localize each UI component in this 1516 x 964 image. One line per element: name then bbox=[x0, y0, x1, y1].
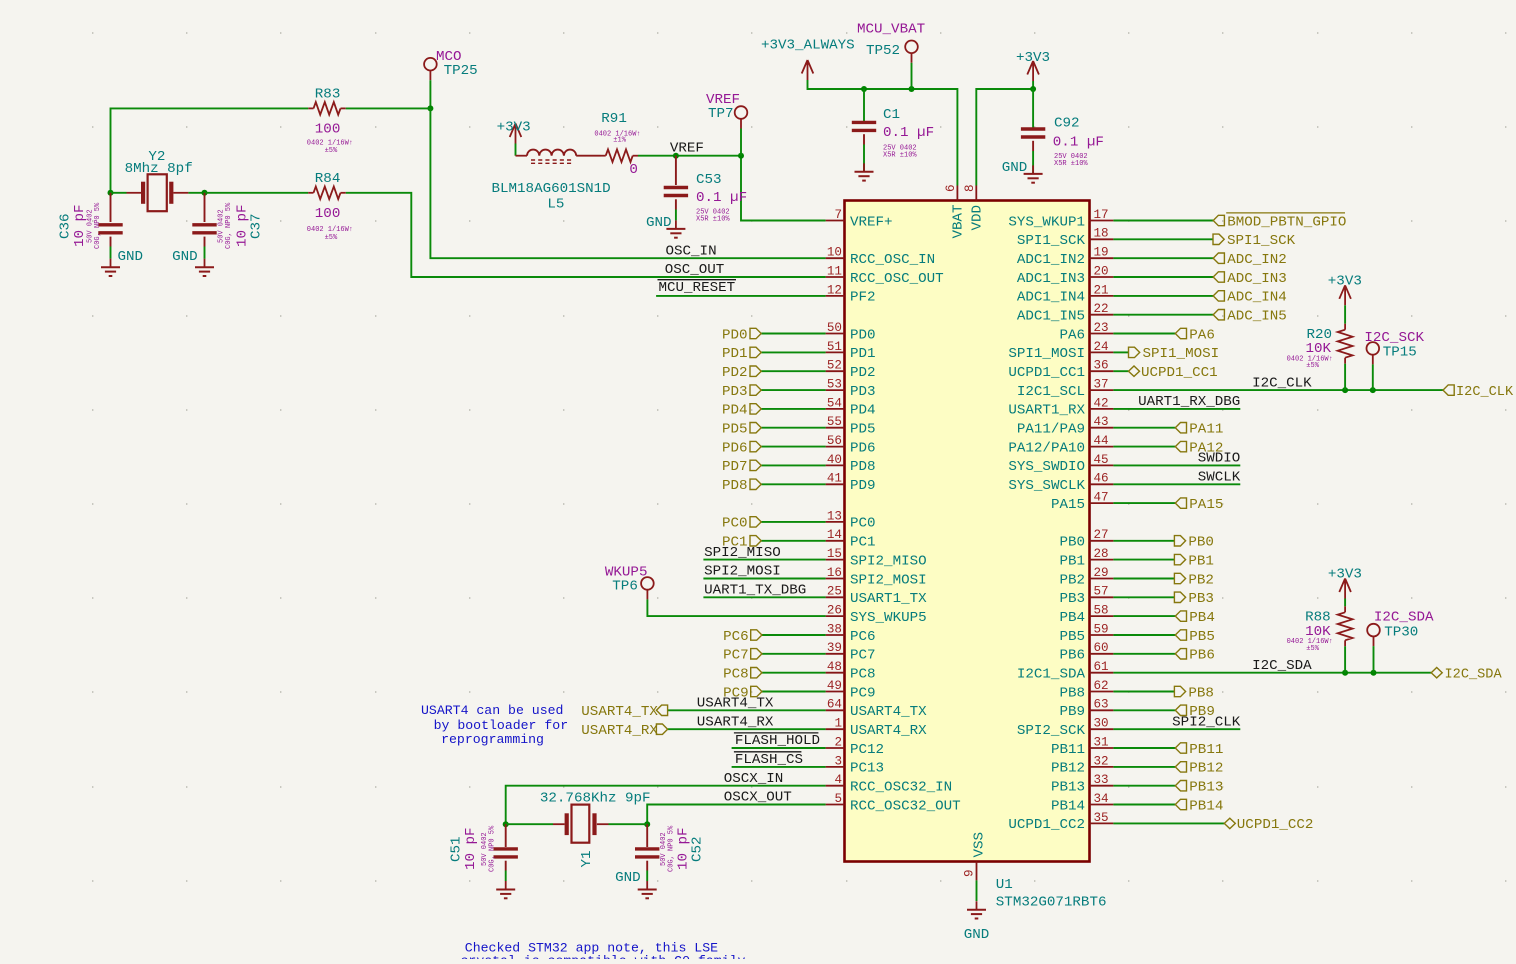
wire PB13 bbox=[1113, 785, 1175, 787]
svg-text:PD5: PD5 bbox=[850, 422, 876, 438]
svg-text:PC13: PC13 bbox=[850, 761, 884, 777]
svg-text:STM32G071RBT6: STM32G071RBT6 bbox=[996, 894, 1107, 910]
svg-text:C53: C53 bbox=[696, 172, 722, 188]
svg-text:I2C1_SCL: I2C1_SCL bbox=[1017, 384, 1085, 400]
svg-text:ADC1_IN4: ADC1_IN4 bbox=[1017, 290, 1085, 306]
pin 35 UCPD1_CC2 (U1 right) bbox=[1008, 811, 1113, 833]
pin 28 PB1 (U1 right) bbox=[1059, 547, 1113, 569]
svg-text:SPI1_SCK: SPI1_SCK bbox=[1017, 233, 1086, 249]
testpoint TP30 circle bbox=[1367, 624, 1380, 637]
svg-text:PB6: PB6 bbox=[1189, 648, 1215, 664]
wire ADC_IN3 bbox=[1113, 276, 1213, 278]
svg-text:36: 36 bbox=[1094, 359, 1109, 373]
svg-text:VDD: VDD bbox=[970, 205, 986, 231]
svg-text:VBAT: VBAT bbox=[951, 204, 967, 238]
svg-text:SPI2_CLK: SPI2_CLK bbox=[1172, 714, 1241, 730]
hierarchical label UCPD1_CC2 bbox=[1224, 817, 1313, 833]
svg-text:57: 57 bbox=[1094, 585, 1109, 599]
svg-text:0: 0 bbox=[629, 162, 638, 178]
svg-text:59: 59 bbox=[1094, 622, 1109, 636]
svg-text:R91: R91 bbox=[601, 111, 627, 127]
wire C51 to ground bbox=[505, 861, 507, 871]
svg-text:ADC_IN5: ADC_IN5 bbox=[1227, 309, 1287, 325]
resistor R91 bbox=[606, 149, 633, 162]
pin 61 I2C1_SDA (U1 right) bbox=[1017, 660, 1114, 682]
pin 55 PD5 (U1 left) bbox=[826, 415, 876, 437]
svg-text:BLM18AG601SN1D: BLM18AG601SN1D bbox=[492, 181, 611, 197]
junction Y1 pin1 / C51 bbox=[503, 821, 509, 827]
note USART4 bootloader (blue text) bbox=[421, 703, 568, 747]
power flag +3V3 arrow (R20) bbox=[1339, 285, 1351, 305]
svg-text:54: 54 bbox=[827, 396, 842, 410]
svg-text:PF2: PF2 bbox=[850, 290, 876, 306]
svg-text:PB12: PB12 bbox=[1189, 761, 1223, 777]
capacitor C51 bbox=[494, 847, 518, 850]
wire SPI1_MOSI bbox=[1113, 351, 1128, 353]
svg-text:SWCLK: SWCLK bbox=[1198, 470, 1241, 486]
svg-text:27: 27 bbox=[1094, 528, 1109, 542]
inductor/ferrite bead L5 bbox=[516, 150, 601, 164]
svg-text:crystal is compatible with G0: crystal is compatible with G0 family bbox=[461, 954, 746, 959]
svg-text:PB13: PB13 bbox=[1189, 780, 1223, 796]
svg-text:PD3: PD3 bbox=[850, 384, 876, 400]
wire R20 to I2C_CLK bbox=[1344, 364, 1346, 390]
svg-text:±1%: ±1% bbox=[613, 137, 626, 145]
svg-text:64: 64 bbox=[827, 698, 842, 712]
wire PD3 to pin bbox=[761, 389, 825, 391]
svg-text:100: 100 bbox=[315, 122, 341, 138]
svg-text:55: 55 bbox=[827, 415, 842, 429]
power flag +3V3 arrow (L5) bbox=[510, 124, 522, 144]
resistor R84 bbox=[314, 187, 341, 200]
svg-text:17: 17 bbox=[1094, 208, 1109, 222]
pin 58 PB4 (U1 right) bbox=[1059, 604, 1113, 626]
svg-text:46: 46 bbox=[1094, 472, 1109, 486]
svg-text:ADC_IN4: ADC_IN4 bbox=[1227, 290, 1287, 306]
svg-text:PA15: PA15 bbox=[1051, 497, 1085, 513]
resistor R20 bbox=[1338, 330, 1353, 358]
pin 49 PC9 (U1 left) bbox=[826, 679, 876, 701]
svg-text:+3V3: +3V3 bbox=[1328, 567, 1362, 583]
wire crystal left bbox=[111, 192, 127, 194]
pin 63 PB9 (U1 right) bbox=[1059, 698, 1113, 720]
pin 43 PA11/PA9 (U1 right) bbox=[1017, 415, 1114, 437]
svg-text:7: 7 bbox=[834, 208, 842, 222]
junction R88/I2C_SDA bbox=[1342, 670, 1348, 676]
svg-text:PB8: PB8 bbox=[1188, 685, 1214, 701]
svg-text:GND: GND bbox=[118, 249, 144, 265]
svg-text:SPI2_MISO: SPI2_MISO bbox=[704, 545, 781, 561]
wire +3V3_ALWAYS rail to VBAT bbox=[808, 80, 958, 186]
svg-text:PD4: PD4 bbox=[850, 403, 876, 419]
capacitor C92 bbox=[1021, 127, 1045, 130]
crystal Y2 bbox=[127, 174, 189, 211]
wire SWDIO bbox=[1113, 464, 1240, 466]
svg-text:PD5: PD5 bbox=[722, 422, 748, 438]
wire SPI2_MISO bbox=[703, 559, 825, 561]
pin 31 PB11 (U1 right) bbox=[1051, 735, 1113, 757]
pin 17 SYS_WKUP1 (U1 right) bbox=[1008, 208, 1113, 230]
junction C53/VREF bbox=[673, 153, 679, 159]
wire PB3 bbox=[1113, 596, 1174, 598]
svg-text:PC12: PC12 bbox=[850, 742, 884, 758]
svg-text:+3V3: +3V3 bbox=[1328, 273, 1362, 289]
svg-text:TP25: TP25 bbox=[444, 63, 478, 79]
hierarchical label PB14 bbox=[1175, 798, 1223, 814]
svg-text:UCPD1_CC1: UCPD1_CC1 bbox=[1008, 365, 1085, 381]
svg-text:22: 22 bbox=[1094, 302, 1109, 316]
wire PC6 to pin bbox=[762, 634, 826, 636]
svg-text:VREF: VREF bbox=[670, 141, 704, 157]
svg-text:±5%: ±5% bbox=[325, 234, 338, 242]
junction TP7/VREF bbox=[738, 153, 744, 159]
pin 46 SYS_SWCLK (U1 right) bbox=[1008, 472, 1113, 494]
hierarchical label USART4_RX bbox=[581, 723, 667, 739]
svg-text:PB0: PB0 bbox=[1188, 535, 1214, 551]
svg-text:21: 21 bbox=[1094, 283, 1109, 297]
svg-text:I2C_SCK: I2C_SCK bbox=[1364, 330, 1424, 346]
svg-text:PB2: PB2 bbox=[1188, 572, 1214, 588]
svg-text:MCU_RESET: MCU_RESET bbox=[659, 280, 736, 296]
svg-text:L5: L5 bbox=[547, 197, 564, 213]
svg-text:8Mhz 8pf: 8Mhz 8pf bbox=[125, 161, 193, 177]
capacitor C52 bbox=[635, 847, 659, 850]
pin 12 PF2 (U1 left) bbox=[826, 283, 876, 305]
svg-text:PB4: PB4 bbox=[1189, 610, 1215, 626]
hierarchical label SPI1_MOSI bbox=[1129, 346, 1220, 362]
svg-text:SPI1_MOSI: SPI1_MOSI bbox=[1143, 346, 1220, 362]
svg-text:MCU_VBAT: MCU_VBAT bbox=[857, 22, 925, 38]
wire Y1 left bbox=[506, 823, 553, 825]
svg-text:45: 45 bbox=[1094, 453, 1109, 467]
svg-text:C92: C92 bbox=[1054, 115, 1080, 131]
svg-text:OSCX_OUT: OSCX_OUT bbox=[724, 790, 792, 806]
svg-text:SWDIO: SWDIO bbox=[1198, 451, 1241, 467]
wire Y2 pin2 to C37 bbox=[204, 193, 206, 222]
wire crystal right to R84 bbox=[188, 192, 204, 194]
svg-text:40: 40 bbox=[827, 453, 842, 467]
ground (C53) bbox=[666, 220, 685, 237]
pin 34 PB14 (U1 right) bbox=[1051, 792, 1113, 814]
svg-text:1: 1 bbox=[834, 717, 842, 731]
svg-text:SPI1_MOSI: SPI1_MOSI bbox=[1008, 346, 1085, 362]
svg-text:23: 23 bbox=[1094, 321, 1109, 335]
pin 19 ADC1_IN2 (U1 right) bbox=[1017, 246, 1114, 268]
hierarchical label PC9 bbox=[723, 685, 762, 701]
svg-text:UCPD1_CC1: UCPD1_CC1 bbox=[1141, 365, 1218, 381]
wire OSCX_IN to crystal Y1 bbox=[506, 786, 826, 825]
wire TP25 down to R83 output bbox=[429, 80, 431, 108]
svg-text:Y1: Y1 bbox=[579, 850, 595, 867]
svg-text:I2C_SDA: I2C_SDA bbox=[1445, 668, 1503, 683]
svg-text:USART4_TX: USART4_TX bbox=[581, 704, 658, 720]
svg-text:C1: C1 bbox=[883, 107, 900, 123]
svg-text:GND: GND bbox=[172, 249, 198, 265]
svg-text:16: 16 bbox=[827, 566, 842, 580]
svg-text:GND: GND bbox=[646, 215, 672, 231]
testpoint TP7 circle bbox=[735, 106, 748, 119]
wire PA12 bbox=[1113, 446, 1175, 448]
svg-text:VSS: VSS bbox=[971, 832, 987, 858]
svg-text:R84: R84 bbox=[315, 171, 341, 187]
svg-text:58: 58 bbox=[1094, 604, 1109, 618]
svg-text:PC7: PC7 bbox=[850, 648, 876, 664]
svg-text:+3V3: +3V3 bbox=[1016, 50, 1050, 66]
svg-text:RCC_OSC32_IN: RCC_OSC32_IN bbox=[850, 780, 952, 796]
pin 11 RCC_OSC_OUT (U1 left) bbox=[826, 264, 944, 286]
svg-text:VREF+: VREF+ bbox=[850, 214, 893, 230]
pin 50 PD0 (U1 left) bbox=[826, 321, 876, 343]
svg-text:PB11: PB11 bbox=[1189, 742, 1223, 758]
wire C1 to ground bbox=[863, 134, 865, 144]
hierarchical label PB4 bbox=[1175, 610, 1215, 626]
wire SPI2_MOSI bbox=[703, 578, 825, 580]
svg-text:+3V3: +3V3 bbox=[497, 119, 531, 135]
svg-text:UART1_TX_DBG: UART1_TX_DBG bbox=[704, 583, 806, 599]
power flag +3V3 arrow (R88) bbox=[1339, 579, 1351, 599]
junction TP30/I2C_SDA bbox=[1371, 670, 1377, 676]
svg-text:63: 63 bbox=[1094, 698, 1109, 712]
wire ADC_IN4 bbox=[1113, 295, 1213, 297]
hierarchical label I2C_CLK bbox=[1443, 385, 1514, 400]
ground (C92) bbox=[1024, 165, 1043, 182]
svg-text:26: 26 bbox=[827, 604, 842, 618]
hierarchical label PA12 bbox=[1175, 440, 1223, 456]
svg-text:53: 53 bbox=[827, 378, 842, 392]
svg-text:SYS_WKUP1: SYS_WKUP1 bbox=[1008, 214, 1085, 230]
svg-text:UCPD1_CC2: UCPD1_CC2 bbox=[1237, 817, 1314, 833]
junction Y2 pin2 / C37 bbox=[202, 190, 208, 196]
svg-text:PD2: PD2 bbox=[722, 365, 748, 381]
pin 60 PB6 (U1 right) bbox=[1059, 641, 1113, 663]
svg-text:UART1_RX_DBG: UART1_RX_DBG bbox=[1138, 394, 1240, 410]
wire PB1 bbox=[1113, 559, 1174, 561]
svg-text:PC0: PC0 bbox=[850, 516, 876, 532]
pin 56 PD6 (U1 left) bbox=[826, 434, 876, 456]
pin 37 I2C1_SCL (U1 right) bbox=[1017, 378, 1114, 400]
pin 52 PD2 (U1 left) bbox=[826, 359, 876, 381]
svg-text:X5R ±10%: X5R ±10% bbox=[696, 216, 730, 224]
svg-text:PC9: PC9 bbox=[850, 685, 876, 701]
hierarchical label PA11 bbox=[1175, 422, 1223, 438]
junction MCO/R83 bbox=[427, 105, 433, 111]
hierarchical label ADC_IN5 bbox=[1213, 309, 1287, 325]
svg-text:0.1 µF: 0.1 µF bbox=[883, 125, 934, 141]
svg-text:I2C_CLK: I2C_CLK bbox=[1252, 375, 1312, 391]
wire MCU_RESET to PF2 bbox=[656, 295, 826, 297]
svg-text:PC8: PC8 bbox=[723, 667, 749, 683]
svg-text:8: 8 bbox=[963, 184, 977, 192]
svg-text:ADC_IN2: ADC_IN2 bbox=[1227, 252, 1287, 268]
svg-text:42: 42 bbox=[1094, 396, 1109, 410]
pin 33 PB13 (U1 right) bbox=[1051, 773, 1113, 795]
wire MCO to RCC_OSC_IN (OSC_IN net) bbox=[430, 108, 825, 258]
svg-text:GND: GND bbox=[615, 870, 641, 886]
wire I2C1_SDA to I2C_SDA bbox=[1113, 672, 1431, 674]
svg-text:UCPD1_CC2: UCPD1_CC2 bbox=[1008, 817, 1085, 833]
pin 59 PB5 (U1 right) bbox=[1059, 622, 1113, 644]
pin 6 VBAT (U1 top) bbox=[944, 184, 967, 238]
svg-text:PB8: PB8 bbox=[1059, 685, 1085, 701]
wire TP15 to I2C_CLK bbox=[1372, 364, 1374, 390]
wire SPI1_SCK bbox=[1113, 238, 1213, 240]
svg-text:PB12: PB12 bbox=[1051, 761, 1085, 777]
IC U1 STM32G071RBT6 body bbox=[845, 201, 1090, 862]
svg-text:PC7: PC7 bbox=[723, 648, 749, 664]
wire FLASH_HOLD bbox=[732, 747, 826, 749]
pin 62 PB8 (U1 right) bbox=[1059, 679, 1113, 701]
svg-text:37: 37 bbox=[1094, 378, 1109, 392]
svg-text:PA6: PA6 bbox=[1189, 327, 1215, 343]
junction TP15/I2C_CLK bbox=[1370, 387, 1376, 393]
wire PD1 to pin bbox=[761, 351, 825, 353]
svg-text:PD8: PD8 bbox=[722, 478, 748, 494]
svg-text:PD7: PD7 bbox=[722, 459, 748, 475]
svg-text:PC0: PC0 bbox=[722, 516, 748, 532]
testpoint TP52 circle bbox=[905, 41, 918, 54]
pin 26 SYS_WKUP5 (U1 left) bbox=[826, 604, 927, 626]
capacitor C36 bbox=[98, 223, 122, 226]
wire SWCLK bbox=[1113, 483, 1240, 485]
svg-text:PB14: PB14 bbox=[1189, 798, 1223, 814]
wire PC0 to pin bbox=[761, 521, 825, 523]
svg-text:I2C_SDA: I2C_SDA bbox=[1252, 658, 1312, 674]
svg-text:PB5: PB5 bbox=[1189, 629, 1215, 645]
svg-text:USART4_TX: USART4_TX bbox=[850, 704, 927, 720]
wire UCPD1_CC2 bbox=[1113, 822, 1224, 824]
pin 53 PD3 (U1 left) bbox=[826, 378, 876, 400]
hierarchical label PA15 bbox=[1175, 497, 1223, 513]
svg-text:USART4_TX: USART4_TX bbox=[697, 696, 774, 712]
wire +3V3 rail to VDD bbox=[976, 81, 1033, 186]
pin 32 PB12 (U1 right) bbox=[1051, 754, 1113, 776]
wire UCPD1_CC1 bbox=[1113, 370, 1128, 372]
svg-text:PD6: PD6 bbox=[722, 440, 748, 456]
hierarchical label PB9 bbox=[1175, 704, 1215, 720]
svg-text:PA15: PA15 bbox=[1189, 497, 1223, 513]
hierarchical label UCPD1_CC1 bbox=[1129, 365, 1218, 381]
pin 30 SPI2_SCK (U1 right) bbox=[1017, 717, 1114, 739]
svg-text:PB0: PB0 bbox=[1059, 535, 1085, 551]
svg-text:34: 34 bbox=[1094, 792, 1109, 806]
svg-text:56: 56 bbox=[827, 434, 842, 448]
svg-text:SPI2_MISO: SPI2_MISO bbox=[850, 553, 927, 569]
wire PD6 to pin bbox=[761, 446, 825, 448]
svg-text:PD1: PD1 bbox=[722, 346, 748, 362]
svg-text:SPI2_MOSI: SPI2_MOSI bbox=[704, 564, 781, 580]
svg-text:GND: GND bbox=[964, 927, 990, 943]
pin 21 ADC1_IN4 (U1 right) bbox=[1017, 283, 1114, 305]
crystal Y1 bbox=[553, 805, 609, 843]
power flag +3V3_ALWAYS arrow bbox=[802, 60, 814, 80]
svg-text:28: 28 bbox=[1094, 547, 1109, 561]
svg-text:C37: C37 bbox=[249, 213, 265, 239]
hierarchical label SPI1_SCK bbox=[1213, 233, 1296, 249]
hierarchical label PB2 bbox=[1174, 572, 1214, 588]
wire +3V3 to L5 bbox=[515, 144, 517, 156]
pin 4 RCC_OSC32_IN (U1 left) bbox=[826, 773, 953, 795]
wire PB6 bbox=[1113, 653, 1175, 655]
svg-text:14: 14 bbox=[827, 528, 842, 542]
pin 38 PC6 (U1 left) bbox=[826, 622, 876, 644]
wire PD5 to pin bbox=[761, 427, 825, 429]
pin 27 PB0 (U1 right) bbox=[1059, 528, 1113, 550]
wire PB14 bbox=[1113, 804, 1175, 806]
pin 10 RCC_OSC_IN (U1 left) bbox=[826, 246, 936, 268]
junction C92/+3V3 bbox=[1030, 86, 1036, 92]
svg-text:C0G, NP0 5%: C0G, NP0 5% bbox=[225, 202, 233, 249]
testpoint TP6 circle bbox=[641, 577, 654, 590]
hierarchical label PB5 bbox=[1175, 629, 1215, 645]
pin 36 UCPD1_CC1 (U1 right) bbox=[1008, 359, 1113, 381]
wire PD0 to pin bbox=[761, 333, 825, 335]
svg-text:PB13: PB13 bbox=[1051, 780, 1085, 796]
svg-text:29: 29 bbox=[1094, 566, 1109, 580]
svg-text:U1: U1 bbox=[996, 877, 1013, 893]
svg-text:9: 9 bbox=[963, 869, 977, 877]
wire PB5 bbox=[1113, 634, 1175, 636]
svg-text:62: 62 bbox=[1094, 679, 1109, 693]
wire VSS to ground bbox=[976, 880, 978, 901]
hierarchical label PB13 bbox=[1175, 780, 1223, 796]
wire PA6 bbox=[1113, 333, 1175, 335]
svg-text:4: 4 bbox=[834, 773, 842, 787]
svg-text:61: 61 bbox=[1094, 660, 1109, 674]
svg-text:19: 19 bbox=[1094, 246, 1109, 260]
svg-text:+3V3_ALWAYS: +3V3_ALWAYS bbox=[761, 38, 855, 54]
pin 45 SYS_SWDIO (U1 right) bbox=[1008, 453, 1113, 475]
hierarchical label PB0 bbox=[1174, 535, 1214, 551]
svg-text:R83: R83 bbox=[315, 87, 341, 103]
wire PB9 bbox=[1113, 709, 1175, 711]
svg-text:2: 2 bbox=[834, 735, 842, 749]
wire PB8 bbox=[1113, 691, 1174, 693]
svg-text:44: 44 bbox=[1094, 434, 1109, 448]
wire TP52 to rail bbox=[911, 63, 913, 89]
svg-text:RCC_OSC32_OUT: RCC_OSC32_OUT bbox=[850, 798, 961, 814]
hierarchical label PB3 bbox=[1174, 591, 1214, 607]
hierarchical label ADC_IN4 bbox=[1213, 290, 1287, 306]
wire BMOD_PBTN_GPIO bbox=[1113, 220, 1213, 222]
svg-text:32: 32 bbox=[1094, 754, 1109, 768]
pin 64 USART4_TX (U1 left) bbox=[826, 698, 928, 720]
capacitor C37 bbox=[192, 223, 216, 226]
wire VREF to C53 bbox=[675, 156, 677, 185]
svg-text:PA11: PA11 bbox=[1189, 422, 1223, 438]
svg-text:30: 30 bbox=[1094, 717, 1109, 731]
svg-text:±5%: ±5% bbox=[1306, 645, 1319, 653]
svg-text:PD3: PD3 bbox=[722, 384, 748, 400]
wire USART4_RX bbox=[668, 728, 826, 730]
svg-text:USART1_TX: USART1_TX bbox=[850, 591, 927, 607]
svg-text:PB3: PB3 bbox=[1059, 591, 1085, 607]
svg-text:33: 33 bbox=[1094, 773, 1109, 787]
wire TP7 to VREF net bbox=[740, 129, 742, 156]
pin 39 PC7 (U1 left) bbox=[826, 641, 876, 663]
svg-text:I2C1_SDA: I2C1_SDA bbox=[1017, 667, 1086, 683]
svg-text:25: 25 bbox=[827, 585, 842, 599]
svg-text:PD2: PD2 bbox=[850, 365, 876, 381]
svg-text:USART4 can be used: USART4 can be used bbox=[421, 703, 563, 718]
hierarchical label PC1 bbox=[722, 535, 761, 551]
pin 44 PA12/PA10 (U1 right) bbox=[1008, 434, 1113, 456]
ground (C1) bbox=[855, 163, 874, 180]
wire C52 to ground bbox=[646, 861, 648, 871]
hierarchical label PB11 bbox=[1175, 742, 1223, 758]
wire to R84 bbox=[205, 192, 309, 194]
svg-text:USART4_RX: USART4_RX bbox=[581, 723, 658, 739]
svg-text:PD0: PD0 bbox=[850, 327, 876, 343]
